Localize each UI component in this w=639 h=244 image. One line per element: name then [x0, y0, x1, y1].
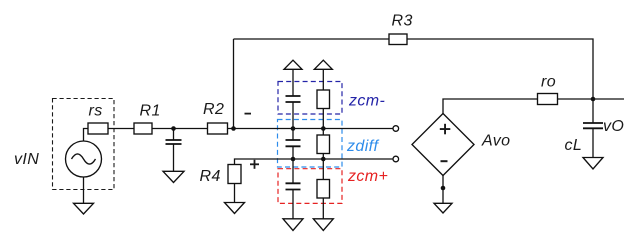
svg-text:R2: R2: [203, 101, 224, 118]
ground under zcm+ capacitor: [283, 219, 303, 231]
wire Avo top to output rail: [443, 99, 624, 114]
minus sign at inverting input: [245, 113, 252, 115]
resistor zdiff middle: [317, 135, 330, 154]
wire feedback vertical from node B to R3: [233, 39, 235, 129]
label zcm+: [347, 168, 388, 185]
ground under Avo: [434, 203, 452, 213]
wire top left to R3: [234, 38, 390, 40]
svg-text:vO: vO: [603, 118, 624, 135]
resistor R2: [208, 123, 228, 134]
svg-text:R4: R4: [200, 168, 221, 185]
wire right column zcm+ resistor to ground: [322, 198, 324, 219]
wire cL capacitor to ground: [592, 128, 594, 157]
voltage source vIN circle: [66, 141, 102, 177]
open terminal noninverting input: [393, 156, 399, 162]
wire R1 to R2: [152, 128, 208, 130]
label R3: [392, 13, 413, 30]
junction below Avo: [441, 186, 446, 191]
svg-text:R1: R1: [140, 103, 161, 120]
resistor rs: [88, 123, 108, 134]
label R2: [203, 101, 224, 118]
label R1: [140, 103, 161, 120]
impedance box zdiff (blue dashed): [278, 120, 343, 168]
label zcm-: [348, 93, 385, 110]
junction output node: [591, 97, 596, 102]
ground under input capacitor: [163, 171, 184, 182]
svg-text:vIN: vIN: [14, 151, 39, 168]
ground under vIN: [74, 203, 94, 214]
label cL: [565, 137, 583, 154]
junction left column noninverting rail: [291, 157, 296, 162]
wire rs to R1: [108, 128, 134, 130]
wire right column zcm- resistor to zdiff resistor: [322, 109, 324, 136]
impedance box zcm+ (red dashed): [278, 169, 342, 204]
wire left column zcm- cap to zdiff cap: [292, 102, 294, 140]
impedance box zcm- (navy dashed): [278, 82, 342, 115]
wire right column zdiff resistor to zcm+ resistor: [322, 154, 324, 180]
dependent source Avo diamond: [412, 114, 474, 176]
capacitor zcm+: [286, 183, 301, 189]
resistor R3: [389, 34, 407, 45]
up arrow above zcm- resistor: [314, 60, 332, 69]
plus sign at noninverting input: [250, 160, 259, 169]
capacitor zcm-: [286, 96, 301, 102]
svg-text:Avo: Avo: [481, 133, 510, 150]
wire noninverting rail from R4 corner to terminal: [235, 159, 394, 165]
source enclosure dashed box: [53, 99, 115, 190]
svg-text:zcm-: zcm-: [348, 93, 385, 110]
label vIN: [14, 151, 39, 168]
ground under zcm+ resistor: [313, 219, 333, 231]
wire vIN source top to rs: [84, 129, 89, 142]
wire vIN source bottom to ground: [83, 177, 85, 203]
resistor zcm- upper: [317, 90, 330, 109]
wire Avo bottom to ground: [442, 176, 444, 204]
wire right column top arrow to zcm- resistor: [322, 69, 324, 90]
resistor R1: [134, 123, 152, 134]
wire left column zcm+ cap to ground: [292, 190, 294, 219]
wire input capacitor to ground: [173, 144, 175, 171]
label R4: [200, 168, 221, 185]
open terminal inverting input: [393, 126, 399, 132]
svg-text:zcm+: zcm+: [347, 168, 388, 185]
label vO: [603, 118, 624, 135]
wire node A stem to input capacitor: [173, 129, 175, 141]
capacitor cL: [583, 123, 603, 128]
wire R3 to output node: [407, 39, 593, 99]
svg-text:ro: ro: [541, 74, 556, 91]
junction right column noninverting rail: [321, 157, 326, 162]
junction node A after R1: [171, 126, 176, 131]
wire left column top arrow to zcm- capacitor: [292, 69, 294, 96]
up arrow above zcm- capacitor: [284, 60, 302, 69]
ground under cL: [583, 158, 603, 170]
label zdiff: [346, 138, 379, 155]
wire left column zdiff cap to zcm+ cap: [292, 146, 294, 183]
svg-text:cL: cL: [565, 137, 583, 154]
capacitor at node A: [166, 140, 182, 144]
svg-text:R3: R3: [392, 13, 413, 30]
resistor zcm+ lower: [317, 180, 330, 199]
label Avo: [481, 133, 510, 150]
junction node B after R2: [231, 126, 236, 131]
wire output node to cL capacitor: [592, 99, 594, 123]
junction right column inverting rail: [321, 126, 326, 131]
resistor R4: [228, 165, 241, 184]
junction left column inverting rail: [291, 126, 296, 131]
svg-text:zdiff: zdiff: [346, 138, 379, 155]
svg-text:rs: rs: [89, 103, 103, 120]
label ro: [541, 74, 556, 91]
label rs: [89, 103, 103, 120]
wire R4 bottom to ground: [234, 184, 236, 203]
ground under R4: [225, 203, 245, 214]
wire R2 to inverting input terminal: [228, 128, 394, 130]
resistor ro: [538, 94, 558, 105]
capacitor zdiff: [286, 140, 301, 146]
